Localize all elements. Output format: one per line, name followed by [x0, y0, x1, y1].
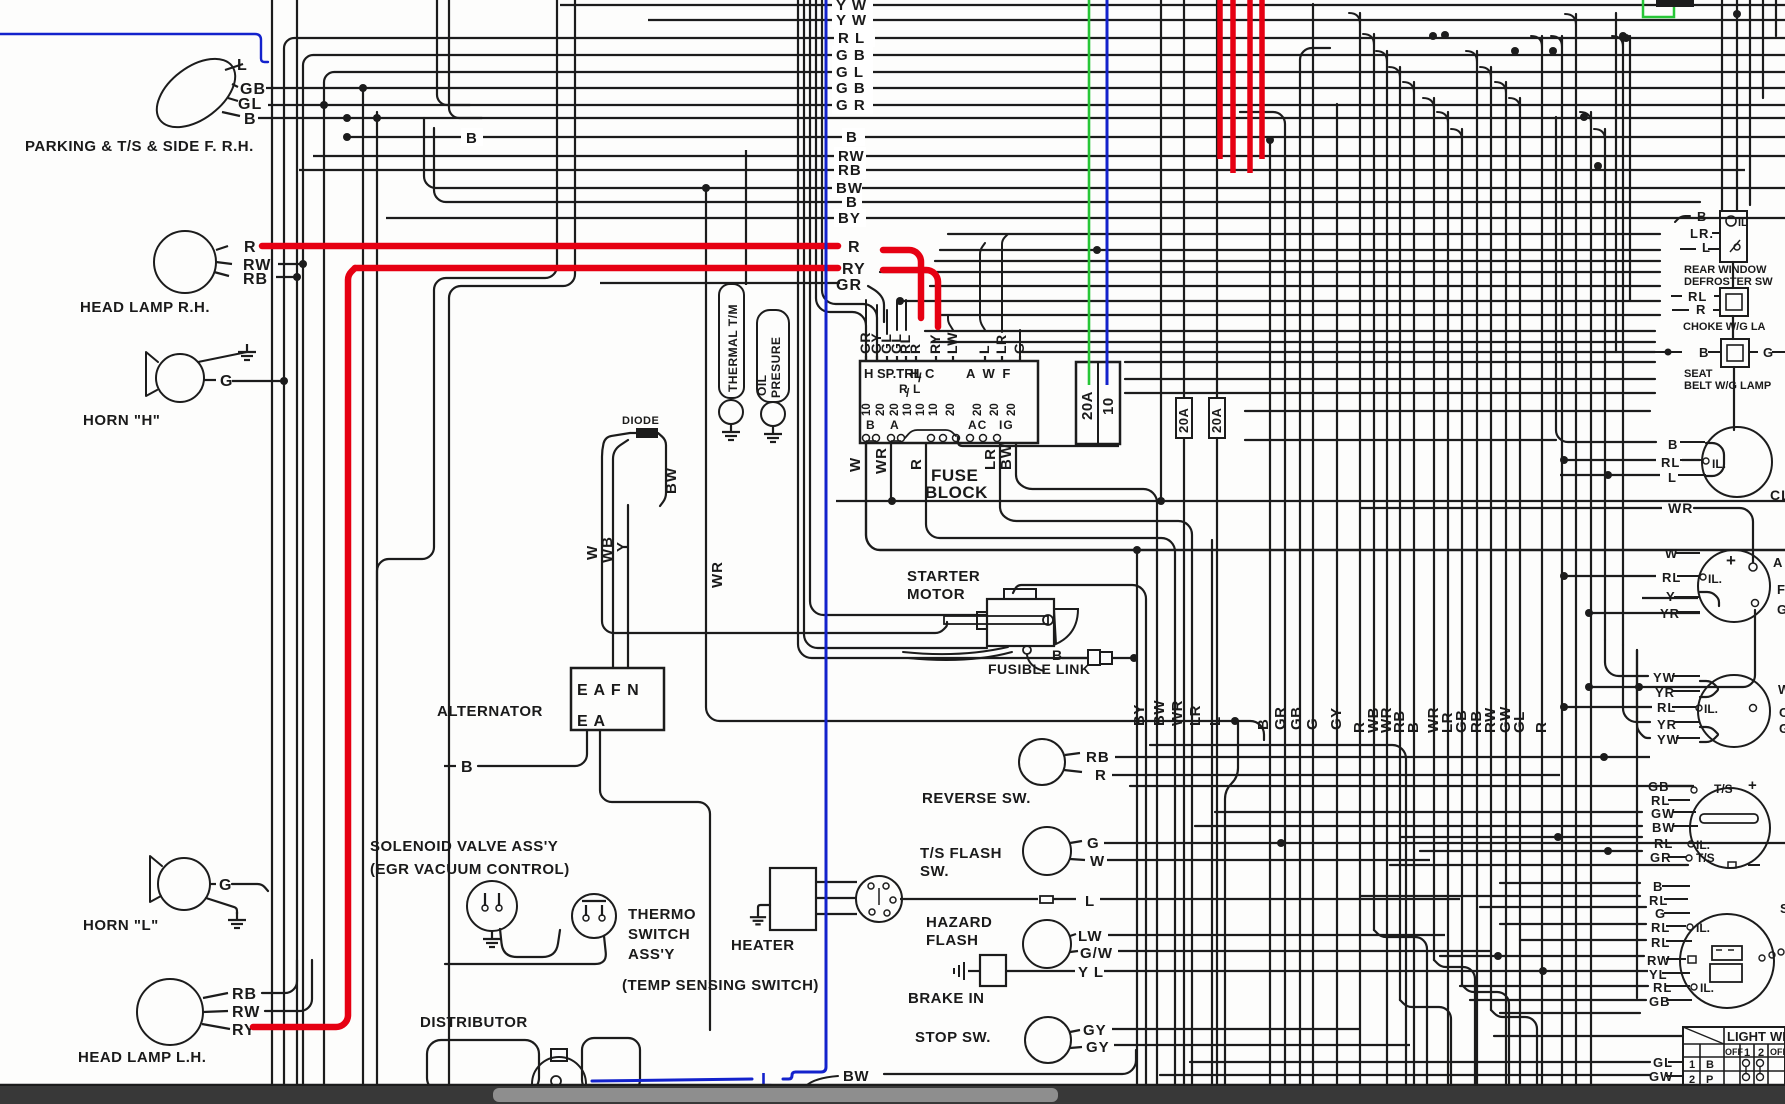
head lamp L.H. [137, 979, 203, 1045]
svg-text:S: S [1780, 901, 1785, 916]
wire highlight blue fuse [1106, 0, 1109, 385]
wire bundle left verticals [272, 0, 377, 1086]
wire WR vertical mid [706, 189, 1264, 740]
svg-text:1: 1 [1744, 1047, 1750, 1059]
svg-text:10: 10 [902, 403, 914, 416]
svg-text:IL.: IL. [1708, 572, 1722, 586]
wire R fuse corner down [926, 443, 1175, 1086]
wire GB parking stub [266, 87, 274, 89]
svg-text:AC: AC [968, 418, 987, 432]
rear window defroster switch [1720, 211, 1747, 262]
wire vertical x746 [745, 150, 747, 285]
svg-text:HEATER: HEATER [731, 937, 795, 954]
svg-text:WR: WR [1668, 500, 1693, 516]
svg-text:A W F: A W F [966, 366, 1012, 381]
svg-text:IL.: IL. [1704, 702, 1718, 716]
svg-text:B: B [466, 130, 478, 147]
svg-text:B: B [1668, 437, 1678, 452]
wire starter feed lower [903, 647, 1008, 654]
svg-text:R: R [1095, 767, 1107, 784]
wire drop L2 [1211, 540, 1213, 1086]
combination switch [1680, 914, 1774, 1008]
wire WB from diode [613, 440, 628, 668]
svg-text:BY: BY [1131, 704, 1148, 726]
svg-text:RB: RB [838, 162, 862, 179]
svg-text:/: / [906, 386, 910, 400]
wire bus y170 RB [299, 169, 1745, 171]
svg-text:GB: GB [1649, 994, 1671, 1009]
wire group mid horizontals y234-393 [880, 234, 1660, 393]
svg-text:LR.: LR. [1690, 226, 1714, 241]
wire stub YR2 gauge3 [1623, 645, 1650, 722]
svg-text:SWITCH: SWITCH [628, 926, 690, 943]
wire below 20A/10 [1077, 445, 1119, 447]
svg-text:BELT W/G LAMP: BELT W/G LAMP [1684, 380, 1771, 392]
fuse 20A no.1 [1176, 398, 1192, 438]
wire corner v437 [437, 0, 470, 105]
svg-text:20: 20 [972, 403, 984, 416]
wire group right-mid horizontals [1130, 411, 1692, 786]
wire corner arcs right grid [1349, 13, 1623, 140]
svg-text:2: 2 [1758, 1047, 1764, 1059]
svg-text:WR: WR [873, 447, 890, 474]
svg-text:10: 10 [915, 403, 927, 416]
svg-text:+: + [1726, 551, 1737, 570]
svg-text:THERMAL T/M: THERMAL T/M [726, 304, 740, 392]
junction dots right top [1429, 32, 1437, 40]
svg-text:B: B [244, 111, 257, 128]
svg-text:WI: WI [1770, 1029, 1785, 1044]
svg-text:Y L: Y L [1078, 964, 1104, 981]
wire bundle corner v284 [284, 38, 1785, 1086]
junction dots y120 y137 [343, 114, 351, 122]
wire bus y188 BW corner [424, 118, 1785, 188]
svg-text:B: B [1405, 722, 1422, 733]
svg-text:+: + [1748, 777, 1758, 794]
wire staircase bottom right [1374, 930, 1427, 1086]
svg-text:LR: LR [1187, 705, 1204, 726]
svg-text:G B: G B [836, 47, 866, 64]
svg-text:OFF: OFF [1725, 1047, 1743, 1057]
parking & t/s & side lamp F.R.H. [144, 45, 247, 141]
wire feeders right components [1556, 117, 1656, 442]
wire bus y20 Y W [648, 19, 1785, 21]
wire bus y118 [258, 117, 1785, 119]
reverse switch [1019, 739, 1065, 785]
svg-text:C: C [925, 366, 935, 381]
t/s indicator gauge [1690, 788, 1770, 868]
svg-text:R: R [1696, 302, 1706, 317]
ammeter gauge [1698, 550, 1770, 622]
svg-text:A: A [890, 418, 900, 432]
svg-text:BW: BW [1652, 820, 1676, 835]
svg-text:REAR WINDOW: REAR WINDOW [1684, 264, 1767, 276]
svg-text:HEAD LAMP L.H.: HEAD LAMP L.H. [78, 1049, 206, 1066]
wire stepper from top v557 [377, 0, 557, 600]
wire y745 with corner down [1150, 745, 1406, 1086]
svg-text:G: G [219, 877, 232, 894]
svg-text:YW: YW [1657, 732, 1680, 747]
svg-text:E A: E A [577, 713, 606, 730]
wire RB headlamp LH [262, 960, 297, 993]
fuse block [860, 361, 1038, 443]
svg-text:HEAD LAMP R.H.: HEAD LAMP R.H. [80, 299, 210, 316]
wire stub RL gauge3 [1564, 706, 1652, 708]
svg-text:G: G [1779, 721, 1785, 736]
svg-text:20: 20 [1006, 403, 1018, 416]
svg-text:B: B [866, 418, 876, 432]
green connector box top right [1643, 0, 1674, 17]
svg-text:BRAKE IN: BRAKE IN [908, 990, 985, 1007]
svg-text:20: 20 [889, 403, 901, 416]
svg-text:RB: RB [232, 986, 257, 1003]
svg-text:IG: IG [999, 418, 1014, 432]
wire BW fuse corner down [1016, 443, 1157, 1086]
svg-text:W: W [1778, 682, 1785, 697]
wire RW headlamp LH [265, 960, 312, 1011]
distributor [427, 1040, 539, 1092]
hazard flasher [1023, 920, 1071, 968]
wire bus y72 G L [832, 63, 873, 81]
svg-text:RW: RW [1647, 953, 1670, 968]
wire bus y218 BY [386, 217, 1785, 219]
svg-text:RL: RL [1662, 570, 1681, 585]
alternator U1 [571, 668, 664, 730]
svg-text:GY: GY [1083, 1022, 1107, 1039]
svg-text:IL: IL [1738, 217, 1748, 229]
wire bus GR y283 [600, 282, 840, 284]
svg-text:G: G [1304, 718, 1321, 730]
wire EA output to distributor [600, 730, 710, 1030]
svg-text:RY: RY [927, 334, 943, 354]
svg-text:BW: BW [663, 467, 680, 494]
svg-text:IL.: IL. [1696, 838, 1710, 852]
svg-text:FLASH: FLASH [926, 932, 979, 949]
svg-text:THERMO: THERMO [628, 906, 696, 923]
svg-text:WR: WR [709, 561, 726, 588]
wire stub YW2 gauge3 [1637, 650, 1650, 738]
wire U solenoid to thermo [500, 929, 560, 957]
svg-text:RL: RL [1661, 455, 1680, 470]
svg-text:G: G [1087, 835, 1100, 852]
wire bus y88 G B [272, 87, 1785, 89]
svg-text:B: B [1697, 209, 1707, 224]
wire RB headlamp to bundle [276, 276, 297, 278]
choke warning lamp [1720, 288, 1748, 316]
svg-text:RW: RW [232, 1004, 260, 1021]
wire RW headlamp to bundle [278, 263, 303, 265]
svg-text:FUSIBLE LINK: FUSIBLE LINK [988, 661, 1090, 677]
svg-text:ASS'Y: ASS'Y [628, 946, 675, 963]
svg-text:(TEMP SENSING SWITCH): (TEMP SENSING SWITCH) [622, 977, 819, 994]
svg-text:G L: G L [836, 64, 864, 81]
svg-text:1: 1 [1689, 1059, 1695, 1071]
svg-text:LR: LR [982, 448, 999, 470]
svg-text:20A: 20A [1209, 408, 1224, 433]
svg-text:GR: GR [1272, 707, 1289, 731]
junction dots right mid [1560, 456, 1568, 464]
wire bundle corner v324 [324, 72, 1785, 1086]
svg-text:(EGR VACUUM CONTROL): (EGR VACUUM CONTROL) [370, 861, 570, 878]
junction dots left bundle [359, 84, 367, 92]
svg-text:BW: BW [1151, 700, 1168, 726]
svg-text:SEAT: SEAT [1684, 368, 1713, 380]
svg-text:CHOKE W/G LA: CHOKE W/G LA [1683, 321, 1766, 333]
wire stub YW gauge3 [1605, 640, 1648, 676]
svg-text:T/S: T/S [1696, 851, 1715, 865]
svg-text:RL: RL [1653, 980, 1672, 995]
svg-text:Y W: Y W [836, 12, 867, 29]
svg-text:B: B [846, 194, 858, 211]
svg-text:20A: 20A [1079, 391, 1096, 420]
wire Y to alternator [627, 505, 629, 668]
svg-text:BY: BY [838, 210, 861, 227]
wire highlight red R headlamp [262, 243, 838, 250]
svg-text:G B: G B [836, 80, 866, 97]
fusible link [1027, 655, 1044, 671]
main fusible box 20A/10 [1076, 362, 1120, 444]
wire highlight green fuse [1088, 0, 1091, 385]
svg-text:DIODE: DIODE [622, 415, 659, 427]
wire highlight blue main [783, 0, 826, 1079]
svg-text:RL: RL [1651, 920, 1670, 935]
svg-text:L: L [761, 1070, 773, 1086]
svg-text:DEFROSTER SW: DEFROSTER SW [1684, 276, 1773, 288]
wire bus y156 RW [313, 155, 1785, 157]
svg-text:RB: RB [243, 271, 268, 288]
svg-text:20: 20 [945, 403, 957, 416]
wire starter top [1013, 585, 1146, 1086]
horn H [156, 354, 204, 402]
head lamp R.H. [154, 231, 216, 293]
svg-text:ALTERNATOR: ALTERNATOR [437, 703, 543, 720]
svg-text:SOLENOID VALVE ASS'Y: SOLENOID VALVE ASS'Y [370, 838, 558, 855]
svg-text:BW: BW [843, 1068, 869, 1085]
junction dots middle [1133, 546, 1141, 554]
seat belt warning lamp [1721, 339, 1749, 367]
wire S-bend into v1300 [1300, 48, 1330, 1086]
fuel gauge [1698, 675, 1770, 747]
wire G horn H [204, 379, 216, 381]
svg-text:10: 10 [928, 403, 940, 416]
svg-text:G/W: G/W [1080, 945, 1113, 962]
wire drop 20A2 down [1216, 0, 1218, 398]
svg-text:RB: RB [1086, 749, 1110, 766]
svg-text:20A: 20A [1176, 408, 1191, 433]
wire LR fuse corner down [1000, 443, 1192, 1086]
svg-text:YW: YW [1653, 670, 1676, 685]
wire highlight red RY [355, 265, 838, 272]
svg-text:R: R [1533, 722, 1550, 733]
svg-text:W: W [847, 457, 864, 472]
junction dots mid buses [702, 184, 710, 192]
wire bus y55 G B [832, 46, 873, 64]
svg-text:YR: YR [1655, 685, 1675, 700]
heater connector [856, 876, 902, 922]
wire drop BW2 [1160, 0, 1162, 501]
svg-text:HAZARD: HAZARD [926, 914, 992, 931]
scrollbar track [0, 1086, 1785, 1104]
svg-text:BLOCK: BLOCK [925, 483, 988, 502]
wire corner into v1285 [1240, 112, 1285, 1086]
wire verticals right edge [1616, 0, 1776, 430]
svg-text:R: R [848, 239, 861, 256]
wire bus y38 R L [834, 29, 875, 47]
svg-text:G: G [220, 373, 233, 390]
svg-text:OFF: OFF [1770, 1047, 1785, 1057]
svg-text:R: R [907, 343, 923, 354]
oil pressure sender [757, 310, 789, 402]
wire stub Y ammeter [1642, 597, 1698, 599]
svg-text:B: B [1653, 879, 1663, 894]
wire YR ammeter [1589, 612, 1700, 614]
svg-text:YR: YR [1657, 717, 1677, 732]
wire corner v449 [449, 0, 482, 118]
clock gauge [1702, 427, 1772, 497]
heater [770, 868, 816, 930]
svg-text:B: B [1706, 1059, 1714, 1071]
svg-text:LW: LW [944, 332, 960, 354]
wire bundle corner v303 [303, 55, 1785, 1086]
wire drop LR2 [1183, 0, 1185, 398]
wire corner into v1270 [1266, 136, 1274, 144]
wire BW hook from diode [658, 433, 666, 506]
svg-text:Y: Y [614, 541, 631, 552]
svg-text:STOP SW.: STOP SW. [915, 1029, 991, 1046]
wire bus y501 [836, 500, 1785, 502]
svg-text:A: A [1773, 555, 1783, 570]
svg-text:B: B [1699, 345, 1709, 360]
svg-text:REVERSE SW.: REVERSE SW. [922, 790, 1031, 807]
fuse 20A no.2 [1209, 398, 1225, 438]
wire grid right verticals [1360, 13, 1623, 1086]
svg-text:IL.: IL. [1700, 981, 1714, 995]
svg-text:T/S FLASH: T/S FLASH [920, 845, 1002, 862]
wire thermo down left [445, 936, 606, 964]
ground horn H [198, 352, 247, 362]
wire stub RL clock [1564, 459, 1656, 461]
stop switch [1025, 1017, 1071, 1063]
svg-text:GW: GW [1651, 806, 1675, 821]
svg-text:O: O [1779, 705, 1785, 720]
diagram bottom edge line [0, 1084, 1785, 1087]
svg-text:LR: LR [993, 334, 1009, 354]
svg-text:B: B [1255, 719, 1272, 730]
wire WR stub to y501 [890, 443, 892, 501]
svg-text:W: W [1090, 853, 1105, 870]
wire W from diode [602, 433, 947, 633]
svg-text:PRESURE: PRESURE [769, 336, 783, 398]
svg-text:LIGHT: LIGHT [1727, 1029, 1766, 1044]
svg-text:B: B [846, 129, 858, 146]
ground horn L [206, 898, 237, 914]
wire bus y202 B corner [434, 128, 1700, 202]
wire W fuse to right [866, 443, 1785, 550]
wire stub L clock [1560, 474, 1660, 476]
wire highlight blue top left [0, 34, 268, 62]
light switch table [1683, 1027, 1785, 1086]
wire G horn L [210, 883, 216, 885]
wire L flasher with connector [900, 898, 1038, 900]
wire drop G grp2 [1312, 4, 1314, 1086]
svg-text:GB: GB [1288, 707, 1305, 731]
svg-text:GY: GY [1086, 1039, 1110, 1056]
svg-text:YR: YR [1660, 606, 1680, 621]
thermal transmitter T/M [719, 284, 744, 398]
svg-text:L: L [976, 345, 992, 354]
svg-text:CL: CL [1770, 487, 1785, 503]
wire YR long with curve to ammeter pin [1589, 610, 1755, 687]
svg-text:STARTER: STARTER [907, 568, 980, 585]
svg-text:R: R [244, 239, 257, 256]
svg-text:PARKING & T/S & SIDE F. R.H.: PARKING & T/S & SIDE F. R.H. [25, 138, 254, 155]
svg-text:HORN "H": HORN "H" [83, 412, 160, 429]
svg-text:G: G [1777, 602, 1785, 617]
svg-text:E A F N: E A F N [577, 682, 640, 699]
svg-text:IL.: IL. [1712, 457, 1726, 471]
t/s flasher switch [1023, 827, 1071, 875]
svg-text:T/S: T/S [1714, 782, 1733, 796]
svg-text:IL.: IL. [1696, 921, 1710, 935]
svg-text:MOTOR: MOTOR [907, 586, 965, 603]
wire WR gauge [1360, 507, 1662, 509]
wire bundle mid verticals to starter [798, 0, 1088, 658]
svg-text:GY: GY [1328, 707, 1345, 730]
wire B alternator [478, 730, 587, 766]
svg-text:10: 10 [861, 403, 873, 416]
svg-text:R: R [908, 458, 925, 470]
svg-text:GB: GB [1648, 779, 1670, 794]
svg-text:HORN "L": HORN "L" [83, 917, 159, 934]
wire drop GY grp2 [1336, 104, 1338, 1086]
wire S-bend v1238 [1225, 721, 1238, 1086]
starter motor [987, 599, 1054, 646]
svg-text:L: L [913, 382, 921, 396]
svg-text:L: L [1207, 716, 1224, 726]
svg-text:10: 10 [1100, 397, 1117, 415]
wire stepper from top v575 [449, 0, 575, 1086]
svg-text:L: L [1085, 893, 1095, 910]
svg-text:OIL: OIL [755, 375, 769, 397]
wire highlight red verticals top [1217, 0, 1223, 159]
svg-text:SW.: SW. [920, 863, 949, 880]
svg-text:L: L [1668, 470, 1677, 485]
wire bus y5 Y W [560, 4, 1785, 6]
svg-text:RY: RY [842, 261, 866, 278]
scrollbar thumb [493, 1088, 1058, 1102]
svg-text:20: 20 [989, 403, 1001, 416]
svg-text:F: F [1777, 582, 1785, 597]
svg-text:B: B [461, 759, 474, 776]
svg-text:WR: WR [1169, 700, 1186, 726]
thermo switch circle [572, 894, 616, 938]
svg-text:G R: G R [836, 97, 866, 114]
wire group right-mid horizontals 2 [0, 0, 1, 1]
wire group bottom right horizontals [1160, 812, 1688, 1075]
svg-text:GR: GR [836, 277, 862, 294]
horn L [158, 858, 210, 910]
fuse block wires up from labels [865, 300, 867, 330]
svg-text:GL: GL [1511, 711, 1528, 733]
wire stub RL ammeter [1564, 575, 1656, 577]
svg-text:DISTRIBUTOR: DISTRIBUTOR [420, 1014, 528, 1031]
svg-text:20: 20 [875, 403, 887, 416]
svg-text:LW: LW [1078, 928, 1103, 945]
svg-text:L: L [237, 57, 248, 74]
brake warning sender [980, 955, 1006, 986]
wire bus y105 G R [268, 104, 1785, 106]
svg-text:RL: RL [1651, 935, 1670, 950]
